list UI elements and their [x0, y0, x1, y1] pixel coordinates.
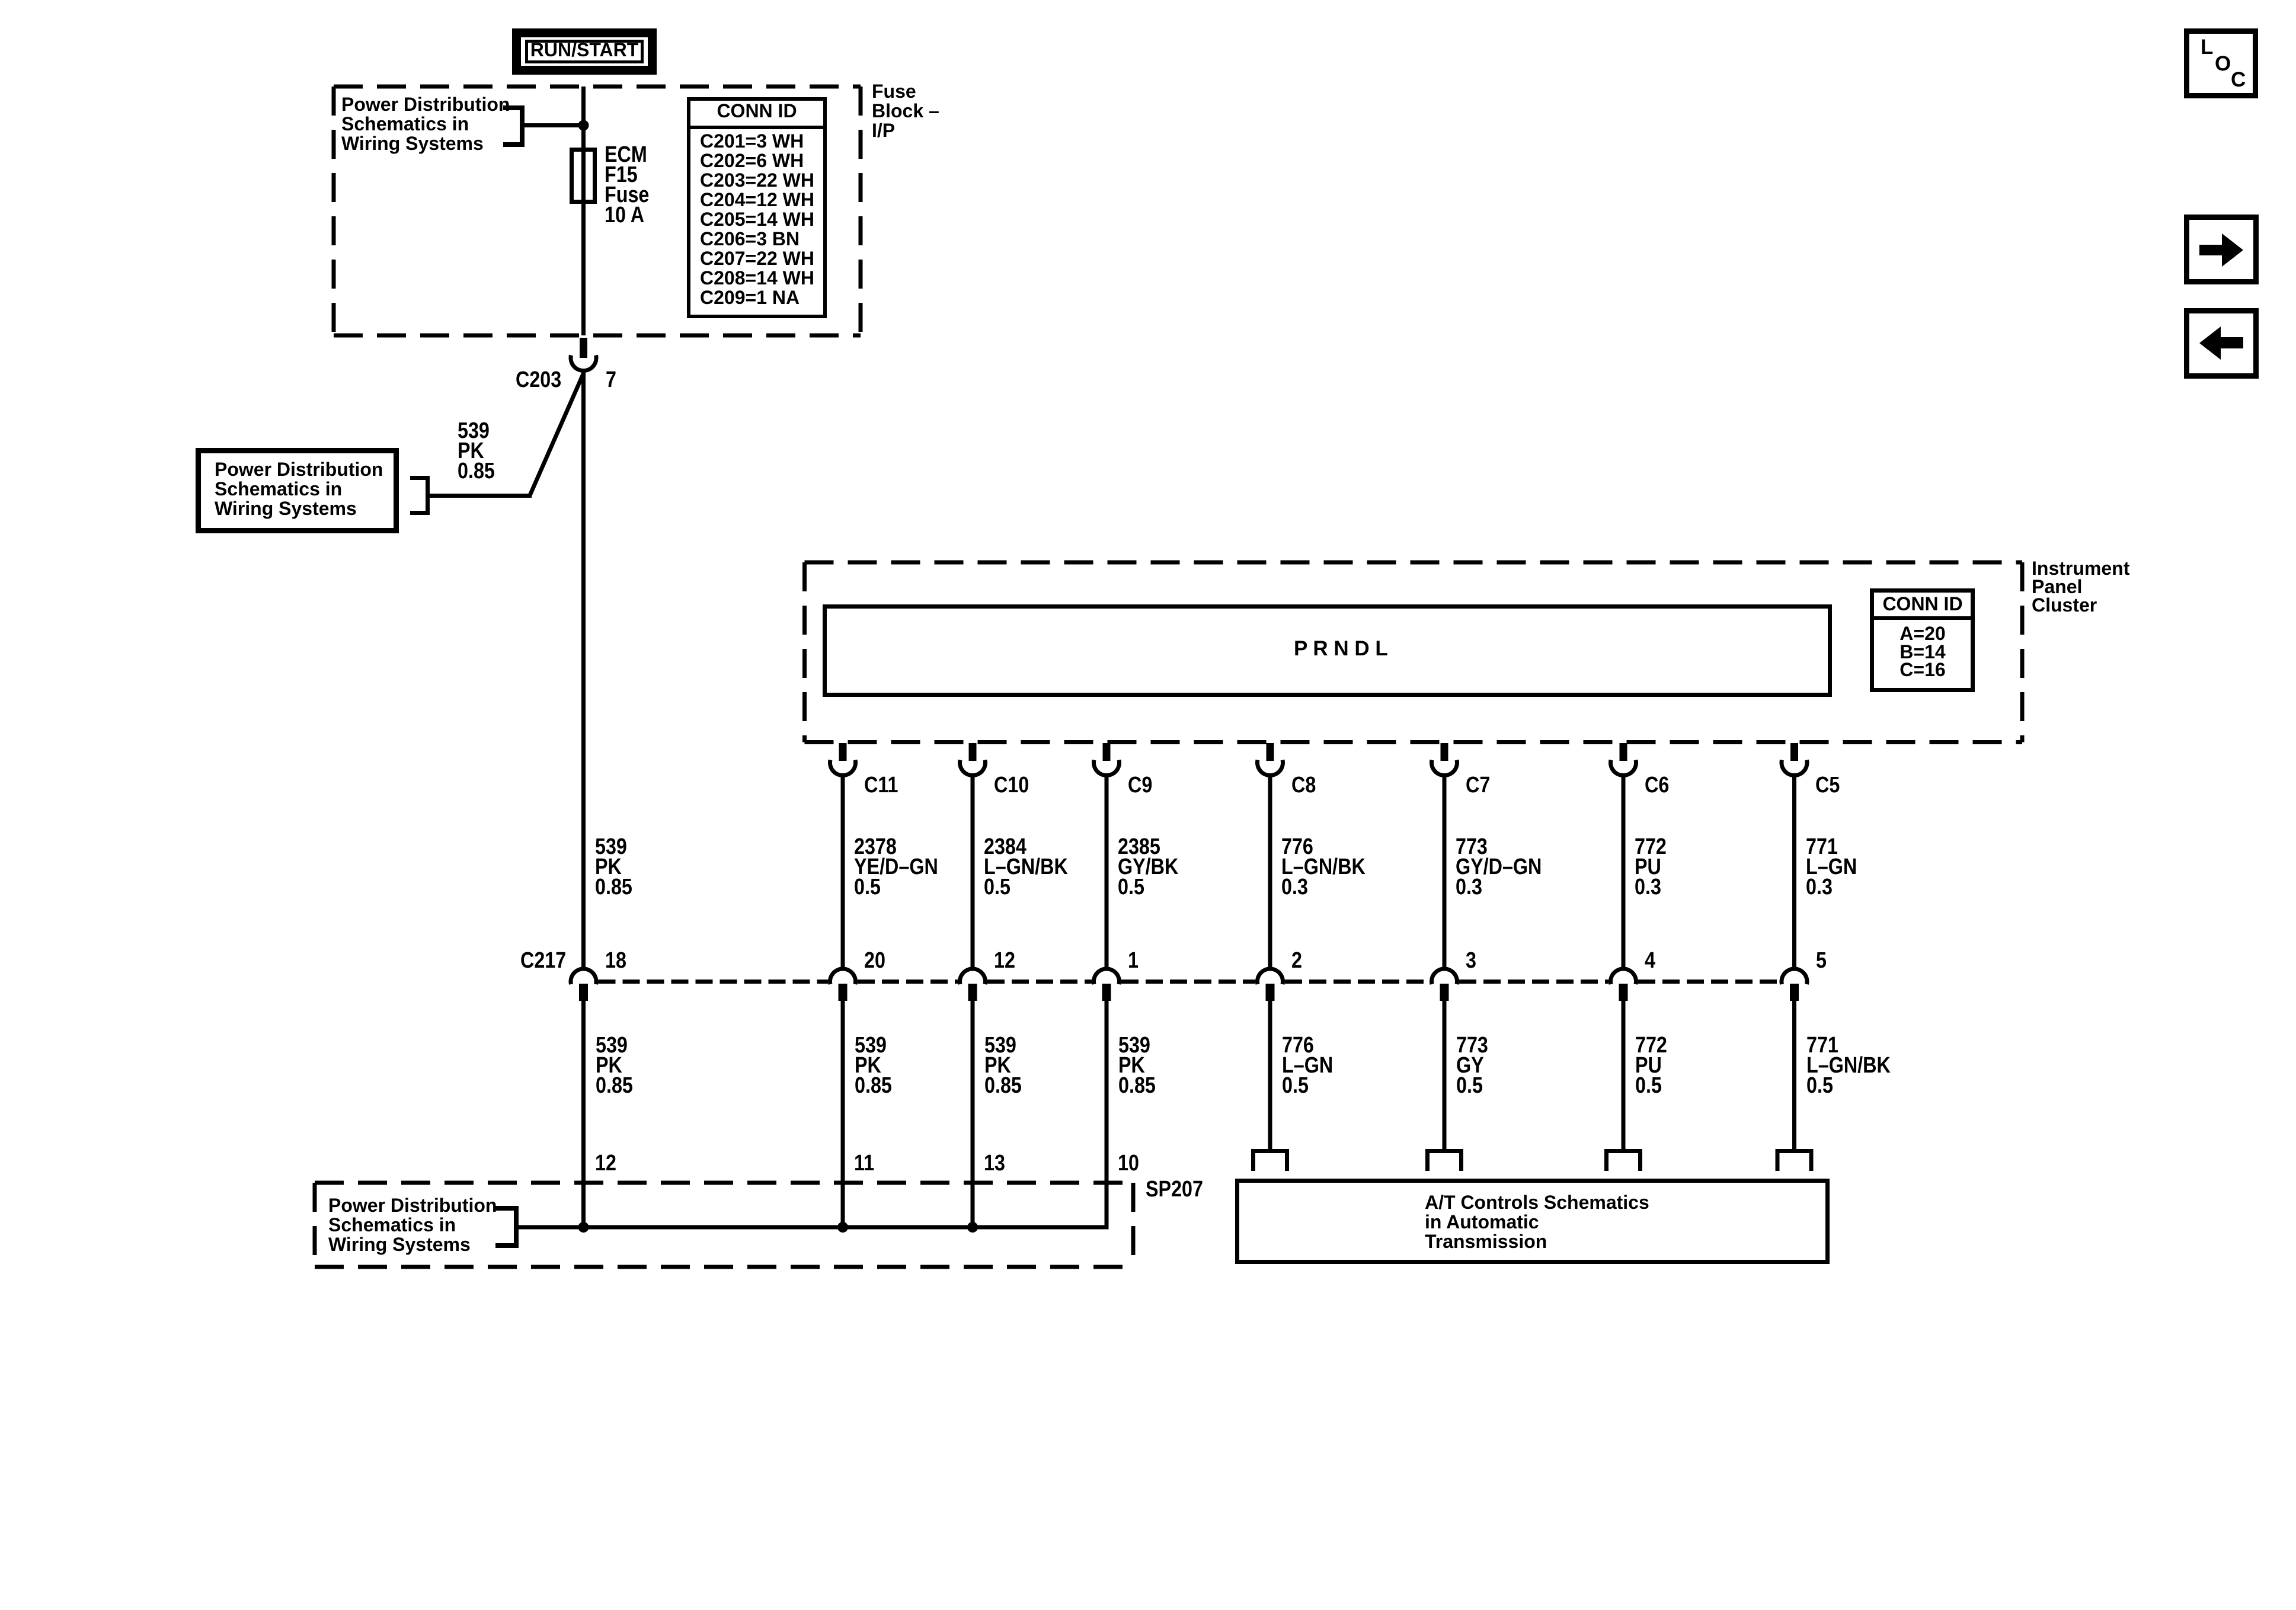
wire label 772 PU 0.5 (below C217)	[1635, 1035, 1667, 1096]
C217 harness dashed line	[1121, 980, 1255, 984]
connector C10 socket cup	[960, 760, 985, 776]
pin 13 at SP207	[984, 1153, 1005, 1173]
connector C217 pin stub 5	[1790, 984, 1799, 1001]
wire label 771 L&ndash;GN 0.3	[1806, 837, 1857, 897]
label Instrument Panel Cluster	[2032, 559, 2129, 614]
terminal to A/T controls	[1428, 1151, 1462, 1172]
previous-page arrow box	[2187, 311, 2256, 376]
wire label 539 PK 0.85 (below C217)	[984, 1035, 1022, 1096]
connector C9 pin stub	[1103, 743, 1111, 761]
wire 773 from C7 to C217	[1443, 774, 1447, 969]
cluster CONN ID table header rule	[1872, 616, 1973, 620]
pin 20 of C217	[864, 950, 885, 971]
cluster CONN ID table box	[1872, 591, 1973, 690]
label RUN/START	[530, 40, 639, 60]
label PRNDL	[1294, 638, 1388, 659]
previous-page left arrow	[2199, 327, 2243, 360]
cluster CONN ID title	[1882, 594, 1962, 614]
label C10	[994, 775, 1029, 795]
connector C217 pin stub 2	[1266, 984, 1275, 1001]
pin 18 of C217	[605, 950, 626, 971]
label SP207	[1146, 1179, 1203, 1199]
wire 2384 from C10 to C217	[971, 774, 975, 969]
label C8	[1291, 775, 1316, 795]
connector C217 cavity arc pin 5	[1782, 969, 1807, 984]
C217 harness dashed line	[1459, 980, 1609, 984]
connector C11 socket cup	[830, 760, 855, 776]
connector C217 cavity arc pin 20	[830, 969, 855, 984]
pin 7 of C203	[606, 370, 616, 390]
connector C8 socket cup	[1258, 760, 1283, 776]
pin 5 of C217	[1816, 950, 1827, 971]
bracket top stub (fuse block note)	[503, 105, 520, 110]
wire 773 down to A/T terminal	[1443, 1001, 1447, 1150]
wire 776 from C8 to C217	[1268, 774, 1272, 969]
note Power Distribution Schematics in Wiring Systems (middle left)	[215, 460, 383, 518]
Power Distribution reference box (middle left)	[199, 451, 396, 531]
SP207 box left edge	[313, 1183, 317, 1267]
wire label 2385 GY/BK 0.5	[1118, 837, 1178, 897]
fuse block CONN ID table header rule	[689, 126, 825, 129]
bracket top stub (SP207 note)	[495, 1206, 514, 1211]
wire 539 down to SP207 splice	[1105, 1001, 1109, 1230]
note Power Distribution Schematics in Wiring Systems (fuse block)	[341, 95, 510, 153]
wire 539 down to SP207 splice	[971, 1001, 975, 1230]
wire 539 down to SP207 splice	[581, 1001, 586, 1230]
instrument panel cluster box left edge	[802, 562, 807, 742]
connector C5 pin stub	[1790, 743, 1798, 761]
connector C10 pin stub	[969, 743, 977, 761]
splice junction dot at x=984.5	[578, 1222, 589, 1233]
label C5	[1815, 775, 1840, 795]
fuse block CONN ID table box	[689, 99, 825, 316]
connector C217 cavity arc pin 4	[1610, 969, 1636, 984]
connector C217 cavity arc pin 3	[1431, 969, 1457, 984]
fuse block box right edge	[859, 87, 863, 335]
wire label 776 L&ndash;GN 0.5 (below C217)	[1282, 1035, 1333, 1096]
wire 771 from C5 to C217	[1792, 774, 1796, 969]
wire branch horizontal to bracket	[430, 494, 532, 498]
fuse block box left edge	[332, 87, 336, 335]
C217 harness dashed line	[599, 980, 829, 984]
C217 harness dashed line	[1285, 980, 1430, 984]
fuse block box top edge	[334, 85, 861, 89]
bracket bottom stub (middle left box)	[410, 511, 426, 515]
instrument panel cluster box top edge	[805, 561, 2023, 565]
terminal to A/T controls	[1607, 1151, 1641, 1172]
fuse block CONN ID title	[717, 101, 797, 121]
wire 776 down to A/T terminal	[1268, 1001, 1272, 1150]
bracket bottom stub (SP207 note)	[495, 1243, 514, 1248]
pin 3 of C217	[1466, 950, 1476, 971]
wire label 2384 L&ndash;GN/BK 0.5	[984, 837, 1068, 897]
C217 harness dashed line	[987, 980, 1092, 984]
wire label 776 L&ndash;GN/BK 0.3	[1281, 837, 1366, 897]
wire 772 from C6 to C217	[1622, 774, 1626, 969]
connector C8 pin stub	[1267, 743, 1274, 761]
LOC letter C	[2231, 69, 2246, 90]
RUN/START switch box inner frame	[527, 41, 642, 62]
connector C6 pin stub	[1620, 743, 1627, 761]
fuse block CONN ID rows	[700, 132, 814, 308]
connector C7 pin stub	[1441, 743, 1448, 761]
connector C7 socket cup	[1431, 760, 1457, 776]
connector C11 pin stub	[839, 743, 847, 761]
wire label 539 PK 0.85 (branch)	[458, 421, 495, 481]
label C6	[1645, 775, 1669, 795]
connector C9 socket cup	[1094, 760, 1120, 776]
connector C217 pin stub 1	[1102, 984, 1111, 1001]
wire label 539 PK 0.85	[595, 837, 632, 897]
C217 harness dashed line	[1638, 980, 1780, 984]
pin 4 of C217	[1645, 950, 1655, 971]
connector C203 pin stub	[580, 338, 587, 358]
label C11	[864, 775, 898, 795]
bracket bottom stub (fuse block note)	[503, 142, 520, 147]
A/T Controls reference box	[1237, 1181, 1828, 1262]
note Power Distribution Schematics in Wiring Systems (SP207)	[328, 1196, 497, 1254]
splice junction dot at x=1641	[967, 1222, 978, 1233]
connector C217 pin stub 4	[1619, 984, 1628, 1001]
connector C5 socket cup	[1782, 760, 1807, 776]
wire label 539 PK 0.85 (below C217)	[855, 1035, 892, 1096]
pin 12 of C217	[994, 950, 1015, 971]
bracket vertical (middle left box)	[426, 476, 430, 515]
next-page arrow box	[2187, 217, 2256, 282]
wire label 772 PU 0.3	[1635, 837, 1667, 897]
fuse block box bottom edge	[334, 334, 861, 338]
wire 772 down to A/T terminal	[1622, 1001, 1626, 1150]
wire diagonal branch 539 PK	[530, 373, 584, 495]
pin 2 of C217	[1291, 950, 1302, 971]
label Fuse Block - I/P	[872, 82, 939, 140]
note A/T Controls Schematics in Automatic Transmission	[1425, 1193, 1649, 1251]
C217 harness dashed line	[858, 980, 958, 984]
connector C217 cavity arc pin 2	[1258, 969, 1283, 984]
SP207 box right edge	[1131, 1183, 1136, 1267]
SP207 box bottom edge	[315, 1265, 1133, 1269]
next-page right arrow	[2199, 233, 2243, 267]
connector C217 pin stub 20	[839, 984, 848, 1001]
bracket vertical (SP207 note)	[514, 1206, 519, 1248]
LOC letter O	[2215, 53, 2231, 74]
splice junction dot at x=1422	[837, 1222, 848, 1233]
terminal to A/T controls	[1253, 1151, 1287, 1172]
wire bracket to node	[525, 123, 583, 127]
label C7	[1466, 775, 1490, 795]
bracket top stub (middle left box)	[410, 476, 426, 480]
connector C217 cavity arc pin 12	[960, 969, 985, 984]
wire 539 down to SP207 splice	[841, 1001, 845, 1230]
LOC letter L	[2201, 37, 2213, 57]
connector C217 cavity arc pin 1	[1094, 969, 1120, 984]
LOC legend box	[2187, 31, 2256, 96]
wire label 773 GY/D&ndash;GN 0.3	[1456, 837, 1542, 897]
connector C6 socket cup	[1610, 760, 1636, 776]
wire label 773 GY 0.5 (below C217)	[1456, 1035, 1488, 1096]
wire 771 down to A/T terminal	[1792, 1001, 1796, 1150]
SP207 box top edge	[315, 1181, 1133, 1185]
pin 1 of C217	[1128, 950, 1139, 971]
label C203	[516, 370, 561, 390]
bracket vertical (fuse block note)	[520, 105, 525, 147]
fuse F15 rectangle	[572, 150, 595, 202]
cluster CONN ID rows	[1900, 625, 1945, 679]
pin 10 at SP207	[1118, 1153, 1139, 1173]
RUN/START switch box outer frame	[517, 33, 653, 71]
connector C217 cavity arc pin 18	[571, 969, 596, 984]
connector C217 pin stub 12	[968, 984, 977, 1001]
label ECM F15 Fuse 10 A	[605, 145, 649, 225]
instrument panel cluster box right edge	[2020, 562, 2025, 742]
instrument panel cluster box bottom edge	[805, 740, 2023, 744]
wire label 771 L&ndash;GN/BK 0.5 (below C217)	[1806, 1035, 1891, 1096]
splice SP207 bus wire	[519, 1225, 1109, 1230]
terminal to A/T controls	[1777, 1151, 1811, 1172]
label C9	[1128, 775, 1152, 795]
junction node on RUN/START feed	[578, 120, 589, 131]
label C217	[520, 950, 566, 971]
pin 12 at SP207	[595, 1153, 616, 1173]
wire 2378 from C11 to C217	[841, 774, 845, 969]
wire label 539 PK 0.85 (below C217)	[596, 1035, 633, 1096]
connector C217 pin stub 3	[1440, 984, 1449, 1001]
wire 539 PK from C203 to C217	[581, 371, 586, 969]
wire label 539 PK 0.85 (below C217)	[1118, 1035, 1156, 1096]
wire 2385 from C9 to C217	[1105, 774, 1109, 969]
connector C217 pin stub 18	[579, 984, 588, 1001]
wire label 2378 YE/D&ndash;GN 0.5	[854, 837, 938, 897]
pin 11 at SP207	[854, 1153, 874, 1173]
connector C203 socket cup	[571, 356, 596, 371]
wire RUN/START feed down through fuse	[581, 87, 586, 335]
PRNDL display box	[825, 607, 1830, 695]
